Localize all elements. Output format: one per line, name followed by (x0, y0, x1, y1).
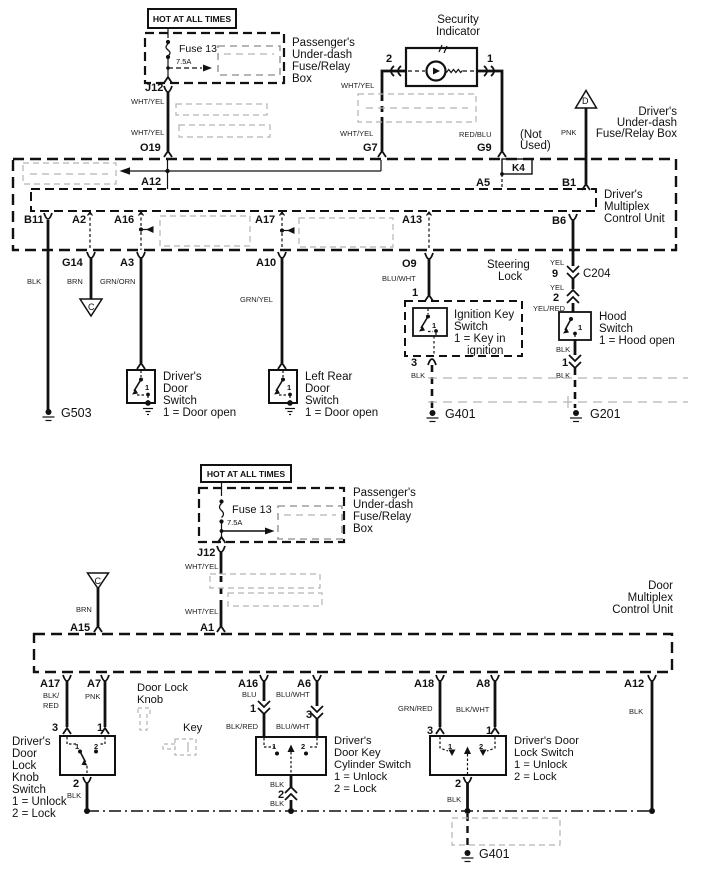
wire BLU/WHT O9 to steering lock (382, 259, 433, 301)
in-line connector pin 3 (key cylinder) (306, 706, 323, 721)
svg-text:2 = Lock: 2 = Lock (334, 783, 377, 795)
wire B11 BLK to G503 (27, 220, 48, 410)
svg-text:1: 1 (272, 742, 276, 751)
node G14 (62, 252, 95, 269)
wire BLK key cylinder to bus (270, 799, 294, 814)
label: Ignition Key Switch (454, 309, 514, 357)
node G9 (477, 142, 506, 157)
ground G201 (570, 407, 621, 422)
wire WHT/YEL J12 to A1 (185, 552, 221, 626)
svg-text:A17: A17 (40, 678, 60, 690)
wire BLK lock switch to bus (447, 783, 471, 814)
greyed rows right of lower J12 wire (210, 574, 322, 606)
svg-text:Under-dash: Under-dash (292, 49, 352, 61)
ground G401 (lower) (462, 847, 510, 862)
svg-text:BLK: BLK (411, 371, 425, 380)
svg-text:Multiplex: Multiplex (628, 592, 674, 604)
label: Door Lock Knob (137, 682, 188, 706)
svg-text:Hood: Hood (599, 311, 627, 323)
svg-text:ignition: ignition (467, 345, 503, 357)
svg-text:1: 1 (145, 383, 149, 392)
wire PNK A7 to knob switch (85, 681, 109, 734)
svg-text:9: 9 (552, 268, 558, 280)
svg-text:Door Lock: Door Lock (137, 682, 188, 694)
wire pin 2 of indicator to G7 (382, 53, 406, 151)
wire BLK/RED to key cylinder switch (226, 714, 264, 736)
svg-text:Fuse 13: Fuse 13 (232, 504, 272, 516)
svg-text:2 = Lock: 2 = Lock (514, 771, 557, 783)
driver's door key cylinder switch (256, 737, 326, 775)
svg-text:A7: A7 (87, 678, 101, 690)
svg-text:G7: G7 (363, 142, 378, 154)
svg-text:Switch: Switch (163, 395, 197, 407)
node G7 (363, 142, 386, 157)
svg-text:WHT/YEL: WHT/YEL (341, 81, 374, 90)
node B6 (552, 214, 577, 227)
passenger's under-dash fuse/relay box (top, dashed) (145, 33, 284, 83)
svg-text:1: 1 (562, 357, 568, 369)
security indicator lamp box (406, 45, 477, 86)
node O19 (140, 142, 172, 157)
wire BLK below hood switch (556, 340, 575, 355)
left rear door switch (269, 370, 297, 415)
svg-text:Left Rear: Left Rear (305, 371, 352, 383)
svg-text:BLU/WHT: BLU/WHT (382, 274, 416, 283)
svg-text:BLK/: BLK/ (43, 691, 60, 700)
greyed rows right of J12 wire (176, 104, 270, 137)
svg-text:GRN/YEL: GRN/YEL (240, 295, 273, 304)
hot-at-all-times box (top) (148, 9, 236, 28)
svg-text:A12: A12 (141, 176, 161, 188)
svg-text:K4: K4 (512, 163, 525, 174)
svg-text:Fuse 13: Fuse 13 (179, 43, 217, 55)
svg-text:A16: A16 (238, 678, 258, 690)
svg-text:Knob: Knob (12, 772, 39, 784)
in-line connector pin 1 (hood) (562, 355, 581, 369)
svg-text:3: 3 (52, 722, 58, 734)
svg-text:Control Unit: Control Unit (612, 604, 674, 616)
svg-text:BLK: BLK (270, 780, 284, 789)
svg-text:Security: Security (437, 14, 479, 26)
wire GRN/RED A18 to lock switch (398, 681, 444, 737)
svg-text:Indicator: Indicator (436, 26, 480, 38)
svg-text:G14: G14 (62, 257, 84, 269)
svg-text:1: 1 (412, 287, 418, 299)
wire J12 to O19 WHT/YEL (167, 92, 170, 151)
svg-text:Fuse/Relay: Fuse/Relay (353, 511, 411, 523)
wire BLK to G201 (556, 368, 575, 408)
svg-text:Control Unit: Control Unit (604, 213, 666, 225)
svg-text:1: 1 (578, 323, 582, 332)
driver's door lock knob switch (60, 736, 115, 775)
wire BLU/WHT to key cylinder switch (276, 719, 317, 736)
wire BLK to G401 (upper) (411, 365, 432, 408)
label: Driver's Multiplex Control Unit (604, 189, 666, 225)
wire PNK from D to B1 (561, 108, 586, 184)
svg-text:1 = Unlock: 1 = Unlock (12, 796, 67, 808)
node A15 (70, 622, 102, 634)
node A12 (lower) (624, 675, 656, 690)
wire BLU A16 (242, 681, 264, 701)
svg-text:D: D (582, 96, 589, 106)
svg-text:1: 1 (287, 383, 291, 392)
svg-text:PNK: PNK (85, 692, 100, 701)
label Security Indicator (436, 14, 480, 38)
svg-text:Door: Door (305, 383, 330, 395)
svg-text:BLK/RED: BLK/RED (226, 722, 259, 731)
svg-text:Switch: Switch (305, 395, 339, 407)
svg-text:BRN: BRN (67, 277, 83, 286)
svg-text:2: 2 (301, 742, 305, 751)
svg-text:Driver's: Driver's (604, 189, 643, 201)
svg-text:Driver's: Driver's (163, 371, 202, 383)
node A18 (414, 675, 444, 690)
ground G401 (upper) (427, 407, 476, 422)
node A10 (256, 252, 286, 269)
node A13 (402, 212, 432, 250)
svg-text:Ignition Key: Ignition Key (454, 309, 514, 321)
svg-text:1 = Unlock: 1 = Unlock (334, 771, 388, 783)
connector C triangle (lower) (88, 573, 109, 589)
label: Driver's Door Lock Switch (514, 735, 579, 783)
svg-text:BLU: BLU (242, 690, 257, 699)
svg-text:1: 1 (432, 321, 436, 330)
svg-text:Box: Box (353, 523, 373, 535)
svg-text:G503: G503 (61, 406, 92, 420)
node 3 below steering lock (411, 357, 436, 369)
svg-text:1: 1 (487, 53, 493, 65)
wire BLK A12 to bus (629, 681, 655, 814)
svg-text:Door: Door (648, 580, 673, 592)
svg-text:3: 3 (411, 357, 417, 369)
relay K4 (500, 159, 532, 188)
svg-text:Driver's: Driver's (12, 736, 51, 748)
svg-text:Knob: Knob (137, 694, 163, 706)
svg-text:Used): Used) (520, 140, 551, 152)
label (Not Used) (520, 129, 551, 152)
svg-text:WHT/YEL: WHT/YEL (185, 562, 218, 571)
greyed component inside fuse box (top) (218, 46, 280, 75)
hot-at-all-times box (lower) (201, 465, 291, 482)
svg-text:BLK: BLK (629, 707, 643, 716)
node A3 (120, 252, 145, 269)
svg-text:2: 2 (455, 778, 461, 790)
internal wire A12 with arrow (120, 160, 382, 189)
wire YEL/RED to hood switch (533, 303, 573, 313)
wire BLK knob switch to bus (67, 783, 90, 814)
node J12 (top) (145, 82, 172, 94)
svg-text:G401: G401 (445, 407, 476, 421)
node 2 below knob switch (73, 777, 91, 790)
svg-text:2: 2 (386, 53, 392, 65)
steering lock assembly dashed box (405, 301, 522, 356)
hood switch (559, 312, 591, 340)
svg-text:YEL: YEL (550, 258, 564, 267)
svg-text:A1: A1 (200, 622, 214, 634)
svg-text:A8: A8 (476, 678, 490, 690)
svg-text:Under-dash: Under-dash (353, 499, 413, 511)
svg-text:Driver's: Driver's (334, 735, 372, 747)
svg-text:2 = Lock: 2 = Lock (12, 808, 56, 820)
node O9 (402, 253, 433, 270)
label: Steering Lock (487, 259, 530, 283)
svg-text:1 = Unlock: 1 = Unlock (514, 759, 568, 771)
wire BRN G14 to connector C (67, 258, 91, 299)
svg-text:HOT AT ALL TIMES: HOT AT ALL TIMES (207, 469, 286, 479)
svg-text:BLK: BLK (556, 345, 570, 354)
svg-text:G9: G9 (477, 142, 492, 154)
svg-text:Switch: Switch (599, 323, 633, 335)
svg-text:1 = Hood open: 1 = Hood open (599, 335, 675, 347)
svg-text:A10: A10 (256, 257, 276, 269)
inner dashed box of control unit (31, 189, 596, 211)
svg-text:A16: A16 (114, 214, 134, 226)
node 2 below lock switch (455, 777, 472, 790)
svg-text:Passenger's: Passenger's (353, 487, 416, 499)
svg-text:2: 2 (73, 778, 79, 790)
svg-text:G401: G401 (479, 847, 510, 861)
svg-text:3: 3 (306, 709, 312, 721)
svg-text:BLK: BLK (27, 277, 41, 286)
label: Hood Switch (599, 311, 675, 347)
svg-text:B1: B1 (562, 177, 576, 189)
node A1 (200, 622, 225, 634)
svg-text:Box: Box (292, 73, 312, 85)
node A16 (lower) (238, 675, 268, 690)
label: Driver's Door Key Cylinder Switch (334, 735, 411, 795)
svg-text:Fuse/Relay: Fuse/Relay (292, 61, 350, 73)
greyed component between A16 and A17 (160, 216, 250, 246)
wire YEL C204 to connector 2 (550, 279, 573, 292)
svg-text:B11: B11 (24, 214, 44, 226)
label: Left Rear Door Switch (305, 371, 378, 419)
node A16 (114, 212, 154, 250)
svg-text:1 = Key in: 1 = Key in (454, 333, 505, 345)
svg-text:WHT/YEL: WHT/YEL (131, 128, 164, 137)
svg-text:A2: A2 (72, 214, 86, 226)
greyed crossing wires (right middle) (428, 378, 688, 408)
greyed door lock knob icon (138, 708, 150, 730)
svg-text:C: C (88, 302, 95, 312)
node A7 (87, 675, 109, 690)
svg-text:WHT/YEL: WHT/YEL (131, 97, 164, 106)
svg-text:BLK: BLK (270, 799, 284, 808)
label: Passenger's Under-dash Fuse/Relay Box (top) (292, 37, 355, 85)
svg-text:WHT/YEL: WHT/YEL (185, 607, 218, 616)
svg-text:1 = Door open: 1 = Door open (305, 407, 378, 419)
svg-text:GRN/ORN: GRN/ORN (100, 277, 135, 286)
svg-text:Steering: Steering (487, 259, 530, 271)
driver's multiplex control unit outer box (13, 159, 676, 250)
node A2 (72, 212, 93, 250)
svg-text:HOT AT ALL TIMES: HOT AT ALL TIMES (153, 14, 232, 24)
door multiplex control unit box (34, 634, 672, 672)
svg-text:GRN/RED: GRN/RED (398, 704, 433, 713)
node A17 (lower) (40, 675, 71, 690)
wire BLK/WHT A8 to lock switch (456, 681, 499, 737)
svg-text:Door: Door (163, 383, 188, 395)
svg-text:B6: B6 (552, 215, 566, 227)
fuse F13 (lower) with 7.5A (218, 482, 275, 543)
ground G503 (43, 406, 92, 421)
svg-text:O9: O9 (402, 258, 417, 270)
svg-text:RED/BLU: RED/BLU (459, 130, 492, 139)
label: Passenger's Under-dash Fuse/Relay Box (lower) (353, 487, 416, 535)
greyed component between A17 and A13 (299, 218, 393, 247)
wire BRN C to A15 (76, 588, 98, 626)
svg-text:A3: A3 (120, 257, 134, 269)
in-line connector pin 1 (key cylinder) (250, 701, 270, 715)
svg-text:A18: A18 (414, 678, 434, 690)
svg-text:7.5A: 7.5A (227, 518, 242, 527)
passenger's under-dash fuse/relay box (lower, dashed) (199, 488, 344, 542)
wire BLU/WHT A6 (276, 681, 317, 706)
wire to G401 (lower) (466, 814, 468, 849)
in-line connector pin 2 (key cylinder out) (278, 787, 297, 801)
svg-text:A5: A5 (476, 177, 490, 189)
svg-text:Fuse/Relay Box: Fuse/Relay Box (596, 128, 677, 140)
svg-text:Passenger's: Passenger's (292, 37, 355, 49)
fuse F13 (top) with 7.5A (164, 28, 217, 83)
connector C triangle (upper) (80, 299, 102, 316)
svg-text:BLU/WHT: BLU/WHT (276, 722, 310, 731)
wire GRN/YEL A10 to left rear door switch (240, 258, 286, 369)
svg-text:BLK: BLK (67, 791, 81, 800)
node J12 (lower) (197, 546, 225, 559)
wire BLK/RED A17 to knob switch (43, 681, 71, 734)
svg-text:C204: C204 (583, 268, 611, 280)
svg-text:Cylinder Switch: Cylinder Switch (334, 759, 411, 771)
svg-text:2: 2 (553, 292, 559, 304)
greyed component top-left inside control unit (23, 163, 116, 184)
svg-text:BLK: BLK (447, 795, 461, 804)
label: Driver's Door Lock Knob Switch (12, 736, 67, 820)
svg-text:Lock: Lock (12, 760, 37, 772)
svg-text:A17: A17 (255, 214, 275, 226)
node A6 (297, 675, 321, 690)
svg-text:RED: RED (43, 701, 59, 710)
svg-text:Lock: Lock (498, 271, 523, 283)
svg-text:Switch: Switch (12, 784, 46, 796)
greyed component under indicator (358, 94, 476, 122)
svg-text:BLK: BLK (556, 371, 570, 380)
svg-text:J12: J12 (145, 82, 163, 94)
svg-text:Switch: Switch (454, 321, 488, 333)
svg-text:O19: O19 (140, 142, 161, 154)
in-line connector pin 2 (hood switch) (553, 290, 579, 304)
svg-text:G201: G201 (590, 407, 621, 421)
svg-text:J12: J12 (197, 547, 215, 559)
wire B6 YEL to C204 (550, 220, 573, 267)
node A8 (476, 675, 499, 690)
node B1 (562, 177, 590, 190)
label: Driver's Door Switch (163, 371, 236, 419)
svg-text:C: C (95, 576, 102, 586)
svg-text:1: 1 (75, 742, 79, 751)
greyed component at lower G401 (452, 818, 560, 845)
svg-text:BLU/WHT: BLU/WHT (276, 690, 310, 699)
wire GRN/ORN A3 to driver's door switch (100, 258, 145, 369)
svg-text:A15: A15 (70, 622, 90, 634)
svg-text:A6: A6 (297, 678, 311, 690)
svg-text:BRN: BRN (76, 605, 92, 614)
svg-text:Lock Switch: Lock Switch (514, 747, 574, 759)
node B11 (24, 213, 52, 226)
svg-text:A12: A12 (624, 678, 644, 690)
svg-text:PNK: PNK (561, 128, 576, 137)
svg-text:7.5A: 7.5A (176, 57, 191, 66)
label: Door Multiplex Control Unit (612, 580, 674, 616)
svg-text:A13: A13 (402, 214, 422, 226)
greyed component inside fuse box (lower) (278, 506, 342, 539)
driver's door switch (127, 370, 155, 415)
svg-text:Key: Key (183, 722, 203, 734)
greyed key icon (163, 739, 196, 755)
node A17 (255, 212, 295, 250)
svg-text:Driver's Door: Driver's Door (514, 735, 579, 747)
svg-text:Door Key: Door Key (334, 747, 381, 759)
svg-text:Multiplex: Multiplex (604, 201, 650, 213)
svg-text:1 = Door open: 1 = Door open (163, 407, 236, 419)
svg-text:1: 1 (250, 703, 256, 715)
svg-text:WHT/YEL: WHT/YEL (340, 129, 373, 138)
ground bus wire (bottom) (87, 810, 652, 812)
driver's door lock switch (430, 736, 506, 775)
ignition key switch (413, 308, 447, 356)
connector D triangle (576, 91, 597, 109)
in-line connector C204 pin 9 (552, 266, 611, 280)
svg-text:YEL: YEL (550, 283, 564, 292)
svg-text:BLK/WHT: BLK/WHT (456, 705, 490, 714)
svg-text:Door: Door (12, 748, 37, 760)
label: Driver's Under-dash Fuse/Relay Box (596, 106, 677, 140)
wire BLK below key cylinder switch (270, 775, 291, 789)
wire pin 1 of indicator to G9 RED/BLU (477, 53, 502, 151)
